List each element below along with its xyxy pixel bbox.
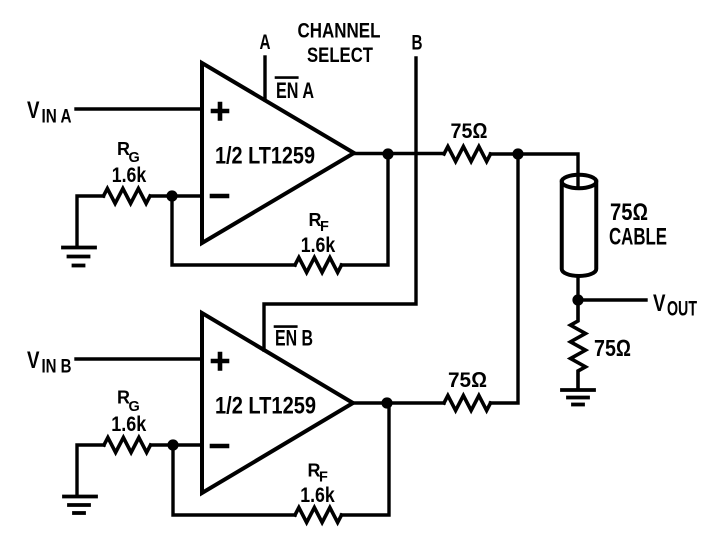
op-amp U1a (202, 63, 354, 243)
svg-text:OUT: OUT (667, 298, 697, 321)
op-amp U1b plus input symbol (213, 354, 227, 369)
wire U1a output to 75ohm (354, 152, 444, 155)
resistor RF (channel B) 1.6k (295, 508, 342, 523)
label VIN A (27, 97, 72, 128)
wire ground to RG (channel B) (77, 445, 104, 494)
svg-text:B: B (412, 31, 423, 55)
op-amp U1a minus input symbol (212, 194, 227, 199)
svg-text:IN B: IN B (42, 357, 72, 378)
wire U1b output to 75ohm (353, 401, 444, 404)
junction dot inverting input A (166, 190, 177, 201)
svg-text:1/2 LT1259: 1/2 LT1259 (215, 143, 315, 170)
ground (channel A) (63, 248, 95, 266)
label RF (channel B) (300, 461, 335, 508)
svg-text:CABLE: CABLE (609, 224, 667, 251)
wire channel select A (263, 57, 266, 100)
junction dot inverting input B (167, 439, 178, 450)
svg-text:75Ω: 75Ω (594, 335, 631, 361)
resistor 75ohm (channel A) (444, 147, 491, 162)
svg-text:A: A (260, 30, 271, 54)
ground (channel B) (64, 497, 96, 514)
junction dot U1b output (381, 397, 392, 408)
wire RG to inverting input B (151, 443, 202, 446)
resistor RG (channel A) 1.6k (104, 189, 151, 204)
junction dot summing node (512, 148, 523, 159)
svg-text:EN B: EN B (275, 326, 313, 351)
resistor 75ohm termination (571, 300, 586, 389)
svg-text:IN A: IN A (42, 107, 72, 128)
resistor RG (channel B) 1.6k (104, 438, 151, 453)
op-amp U1a plus input symbol (213, 104, 227, 119)
label 75ohm CABLE (609, 199, 667, 251)
resistor 75ohm (channel B) (444, 396, 491, 411)
ground (termination) (562, 390, 594, 405)
svg-text:75Ω: 75Ω (448, 368, 487, 392)
svg-text:1.6k: 1.6k (300, 484, 335, 507)
wire channel select B (264, 58, 416, 350)
label CHANNEL SELECT (298, 18, 381, 67)
label VIN B (27, 347, 72, 378)
svg-text:V: V (27, 347, 40, 374)
junction dot VOUT node (572, 294, 583, 305)
svg-text:1.6k: 1.6k (111, 413, 146, 436)
junction dot U1a output (382, 148, 393, 159)
wire VIN B to U1b + (76, 357, 202, 360)
wire ground to RG (channel A) (77, 196, 104, 245)
svg-text:1.6k: 1.6k (112, 164, 147, 187)
svg-text:75Ω: 75Ω (451, 119, 488, 143)
wire VOUT (578, 298, 646, 301)
wire VIN A to U1a + (76, 107, 202, 110)
svg-text:CHANNEL: CHANNEL (298, 18, 381, 42)
wire 75ohm B up to summing node (491, 154, 519, 403)
label RG (channel A) (112, 139, 147, 187)
wire RG to inverting input A (151, 194, 203, 197)
wire summing node to cable (491, 154, 579, 186)
wire cable to VOUT node (576, 277, 579, 300)
svg-text:1.6k: 1.6k (301, 234, 336, 257)
svg-text:1/2 LT1259: 1/2 LT1259 (215, 393, 316, 420)
coax cable cylinder (562, 175, 597, 276)
op-amp U1b minus input symbol (212, 444, 227, 449)
label RG (channel B) (111, 388, 146, 437)
svg-text:F: F (320, 219, 329, 235)
wire feedback loop A (172, 154, 388, 265)
svg-text:EN A: EN A (276, 78, 314, 103)
svg-text:V: V (653, 290, 666, 317)
svg-text:SELECT: SELECT (307, 43, 373, 67)
svg-text:V: V (27, 97, 40, 124)
label RF (channel A) (301, 210, 336, 257)
svg-text:75Ω: 75Ω (610, 199, 648, 226)
resistor RF (channel A) 1.6k (295, 258, 342, 273)
wire feedback loop B (173, 403, 389, 515)
label VOUT (653, 290, 697, 321)
op-amp U1b (202, 313, 353, 493)
